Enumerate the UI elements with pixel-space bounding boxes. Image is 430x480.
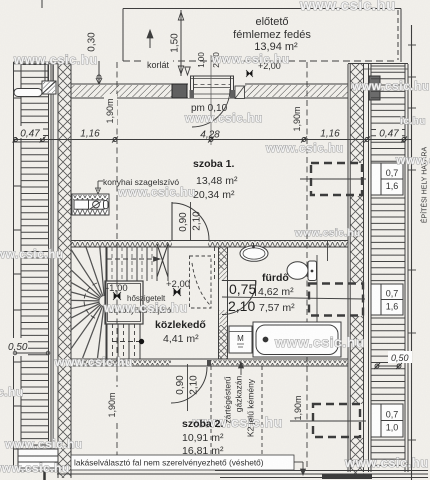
label 1,90m left bottom bbox=[106, 387, 119, 423]
chimney niche B centerlines bbox=[316, 255, 318, 330]
text fémlemez fedés bbox=[233, 29, 311, 41]
dim text 0,47 right bbox=[376, 126, 402, 140]
text 13,94 m2 bbox=[254, 41, 298, 53]
dashed line 1,90 right bbox=[306, 62, 308, 470]
dim text 4,28 bbox=[200, 130, 220, 141]
text gázkazán bbox=[233, 376, 243, 413]
dashed line 1,90 left bbox=[116, 62, 118, 470]
text 10,91 m2 bbox=[182, 432, 224, 444]
small up arrow bbox=[147, 30, 153, 48]
watermark behind szoba2 bbox=[192, 414, 283, 430]
bath door leaf bbox=[222, 281, 256, 297]
chimney niche C centerline bbox=[290, 420, 366, 422]
text pm 0,10 bbox=[191, 103, 228, 114]
text búvónyílás bbox=[109, 306, 172, 315]
text 20,34 m2 bbox=[193, 189, 235, 201]
dark stub below landing bbox=[43, 471, 46, 480]
bath door fraction 2,10 bbox=[228, 298, 255, 314]
left neighbour stair rungs bbox=[21, 65, 48, 452]
toilet bbox=[287, 261, 317, 281]
chimney niche C dashed box bbox=[313, 404, 360, 437]
text 7,57 m2 bbox=[259, 302, 295, 314]
door D1 swing arc bbox=[172, 203, 209, 240]
right chimney box lower with 0,7 1,0 bbox=[371, 404, 403, 437]
stair stringer line bbox=[105, 247, 107, 360]
stair landing box bbox=[105, 281, 143, 324]
text zártégésterű bbox=[222, 376, 232, 424]
text szoba 2. bbox=[182, 418, 224, 430]
bath door swing arc bbox=[222, 281, 256, 315]
left stair bottom landing bbox=[18, 449, 58, 471]
sink bbox=[240, 243, 268, 261]
fraction line bath bbox=[222, 297, 365, 299]
door D2 size 0,90 bbox=[175, 375, 186, 395]
stair lower flight treads bbox=[107, 324, 140, 359]
handrail end (pill) bbox=[14, 89, 42, 97]
right wall outer face lines bbox=[369, 64, 372, 472]
chimney niche A centerline bbox=[300, 178, 366, 180]
left stair stringer lines bbox=[49, 62, 54, 471]
bottom wall dark block bbox=[322, 475, 372, 480]
wall right crosshatch bbox=[351, 64, 364, 478]
wire left outer rail lines bbox=[14, 62, 22, 471]
walk line start dot bbox=[112, 339, 144, 343]
attic hatch dashed box bbox=[190, 256, 212, 308]
bottom wall lines bbox=[57, 471, 428, 478]
site boundary line bbox=[408, 25, 416, 480]
left strip top edge bbox=[14, 62, 72, 64]
level +2,00 stair bbox=[166, 279, 190, 296]
text 4,62 m2 bbox=[258, 286, 294, 298]
bathroom west wall bbox=[219, 247, 228, 359]
label 1,90m right top bbox=[291, 102, 304, 136]
door D1 size 2,10 bbox=[192, 211, 203, 231]
dim 0,50 left bbox=[4, 338, 50, 356]
door D2 size 2,10 bbox=[189, 375, 200, 395]
dim text 1,16 right bbox=[320, 129, 340, 140]
bathtub bbox=[253, 322, 341, 357]
extension line door bbox=[210, 55, 212, 145]
railing dashed line (korlát) bbox=[123, 55, 395, 75]
előtető right corner line bbox=[400, 9, 402, 63]
winder stair fan treads bbox=[71, 246, 104, 358]
right stair rail bbox=[405, 64, 408, 472]
terrace beam hatched bbox=[71, 84, 348, 98]
right neighbour stair rungs bbox=[371, 66, 405, 465]
level -1,00 bbox=[106, 283, 128, 300]
chimney niche A dashed box bbox=[311, 163, 362, 195]
stair walk line upper bbox=[107, 257, 160, 261]
wall right inner face lines bbox=[348, 64, 350, 472]
dark block right top bbox=[369, 76, 380, 100]
door D1 fraction line bbox=[190, 202, 192, 240]
wall left outer crosshatch bbox=[58, 62, 71, 478]
dashed roof line right bbox=[397, 10, 399, 60]
small box with diagonal bbox=[42, 81, 56, 94]
door D2 swing arc bbox=[171, 367, 207, 403]
text 13,48 m2 bbox=[196, 175, 238, 187]
fan walk arc bbox=[84, 283, 97, 319]
text fürdő bbox=[262, 272, 289, 284]
level mark +2,00 terrace bbox=[246, 61, 281, 77]
door D2 fraction line bbox=[187, 364, 189, 411]
terrace door opening bbox=[188, 76, 245, 99]
text lakáselválasztó box bbox=[71, 455, 294, 470]
text hőszigetelt bbox=[127, 294, 166, 303]
terrace door size labels bbox=[197, 52, 221, 68]
text 4,41 m2 bbox=[163, 333, 199, 345]
door D1 leaf bbox=[171, 202, 173, 240]
kitchen exhaust duct bbox=[72, 194, 109, 215]
leader from box bbox=[294, 462, 306, 475]
door D1 size 0,90 bbox=[178, 212, 189, 232]
text konyhai szagelszívó bbox=[103, 177, 179, 187]
top-left post lines bbox=[45, 63, 53, 81]
text building site boundary bbox=[419, 147, 428, 224]
dashed line x211 bbox=[211, 366, 262, 462]
dim 0,50 right bbox=[374, 351, 412, 369]
top tick mark bbox=[41, 0, 43, 8]
right chimney box middle with 0,7 1,6 bbox=[371, 284, 403, 315]
text előtető bbox=[255, 16, 288, 28]
wall szoba1 south zigzag bbox=[71, 241, 348, 248]
label 1,90m left top bbox=[104, 94, 117, 128]
text 16,81 m2 bbox=[182, 445, 224, 457]
wall szoba2 north zigzag bbox=[71, 359, 348, 366]
boiler box M bbox=[229, 326, 252, 353]
text szoba 1. bbox=[193, 158, 235, 170]
right strip top edge bbox=[348, 64, 408, 70]
stair break mark bbox=[157, 244, 168, 277]
leader to boiler bbox=[239, 362, 244, 375]
dim text 1,16 left bbox=[80, 129, 100, 140]
railing post dark block bbox=[172, 84, 187, 98]
dimension 0,30 bbox=[87, 32, 102, 84]
text K2 jelű kémény bbox=[245, 378, 255, 437]
dimension chain line bbox=[13, 137, 412, 143]
dashed line x215 bbox=[214, 247, 216, 282]
terrace door swing arc bbox=[192, 89, 230, 127]
bath door fraction 0,75 bbox=[229, 281, 256, 297]
dim text 0,47 left bbox=[17, 126, 43, 140]
duct edge line by toilet bbox=[327, 241, 329, 262]
dimension 1,50 bbox=[170, 10, 184, 76]
leader to duct bbox=[96, 181, 104, 194]
előtető outline top bbox=[123, 9, 401, 62]
label 1,90m right bottom bbox=[292, 390, 305, 426]
right chimney box upper with 0,7 1,6 bbox=[371, 163, 403, 195]
chimney niche B dashed box bbox=[309, 284, 363, 316]
stair upper flight treads bbox=[107, 243, 168, 281]
text közlekedő bbox=[155, 319, 206, 331]
